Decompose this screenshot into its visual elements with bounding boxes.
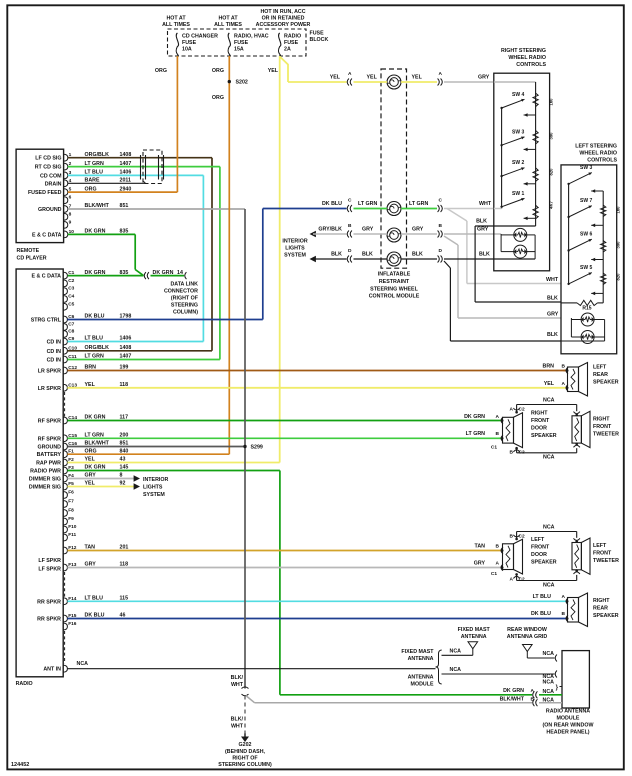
svg-text:B: B	[439, 223, 443, 229]
svg-text:FUSE: FUSE	[284, 40, 299, 46]
svg-text:1408: 1408	[120, 152, 132, 158]
svg-text:43: 43	[120, 457, 126, 463]
svg-text:CONTROL MODULE: CONTROL MODULE	[369, 294, 420, 300]
svg-text:DK GRN: DK GRN	[464, 414, 485, 420]
svg-text:NCA: NCA	[543, 455, 555, 461]
svg-text:DK GRN: DK GRN	[85, 270, 106, 276]
svg-text:840: 840	[120, 448, 129, 454]
svg-text:GROUND: GROUND	[37, 445, 61, 451]
svg-text:CD IN: CD IN	[47, 349, 62, 355]
svg-text:LT BLU: LT BLU	[533, 594, 552, 600]
svg-text:FRONT: FRONT	[531, 545, 550, 551]
svg-text:CONTROLS: CONTROLS	[587, 158, 617, 164]
svg-text:YEL: YEL	[544, 381, 555, 387]
svg-text:BLK: BLK	[479, 252, 490, 258]
svg-text:RIGHT STEERING: RIGHT STEERING	[501, 48, 546, 54]
svg-text:NCA: NCA	[543, 680, 555, 686]
svg-text:STRG CTRL: STRG CTRL	[31, 318, 62, 324]
svg-text:ORG: ORG	[155, 68, 167, 74]
svg-text:FRONT: FRONT	[593, 424, 612, 430]
svg-text:REAR: REAR	[593, 606, 608, 612]
svg-text:C1: C1	[491, 571, 497, 577]
svg-text:YEL: YEL	[268, 68, 279, 74]
svg-text:ORG: ORG	[85, 186, 97, 192]
svg-text:6: 6	[69, 195, 72, 201]
svg-text:10A: 10A	[182, 47, 192, 53]
svg-text:YEL: YEL	[330, 75, 341, 81]
svg-text:390: 390	[616, 241, 621, 249]
svg-text:FIXED MAST: FIXED MAST	[458, 627, 491, 633]
svg-text:FRONT: FRONT	[593, 551, 612, 557]
svg-text:A: A	[562, 594, 566, 600]
svg-text:DK BLU: DK BLU	[322, 201, 342, 207]
svg-text:ANTENNA: ANTENNA	[408, 675, 434, 681]
svg-text:BRN: BRN	[543, 364, 555, 370]
svg-text:ACCESSORY POWER: ACCESSORY POWER	[256, 22, 311, 28]
svg-text:145: 145	[120, 465, 129, 471]
svg-text:GRY/BLK: GRY/BLK	[318, 227, 342, 233]
svg-text:(BEHIND DASH,: (BEHIND DASH,	[225, 749, 266, 755]
svg-text:BARE: BARE	[85, 178, 100, 184]
svg-text:B: B	[348, 223, 352, 229]
svg-text:LR SPKR: LR SPKR	[38, 386, 61, 392]
svg-text:DK BLU: DK BLU	[85, 314, 105, 320]
svg-text:RIGHT: RIGHT	[531, 411, 548, 417]
svg-text:NCA: NCA	[543, 689, 555, 695]
svg-text:FUSE: FUSE	[182, 40, 197, 46]
svg-text:RADIO: RADIO	[16, 681, 33, 687]
svg-text:NCA: NCA	[450, 667, 462, 673]
svg-text:TWEETER: TWEETER	[593, 432, 619, 438]
svg-text:BLK: BLK	[331, 252, 342, 258]
svg-text:LT GRN: LT GRN	[85, 433, 104, 439]
svg-text:LF CD SIG: LF CD SIG	[35, 156, 61, 162]
svg-text:S202: S202	[236, 80, 248, 86]
svg-text:A: A	[510, 577, 514, 583]
svg-text:FUSE: FUSE	[234, 40, 249, 46]
svg-text:REMOTE: REMOTE	[17, 248, 40, 254]
svg-text:C8: C8	[68, 329, 74, 335]
svg-text:GRY: GRY	[362, 227, 374, 233]
svg-text:DOOR: DOOR	[531, 552, 547, 558]
svg-text:124452: 124452	[11, 762, 29, 768]
svg-text:LT BLU: LT BLU	[85, 336, 104, 342]
svg-text:DK BLU: DK BLU	[85, 613, 105, 619]
svg-text:A: A	[531, 688, 535, 694]
svg-text:RT CD SIG: RT CD SIG	[35, 165, 62, 171]
svg-text:DK GRN: DK GRN	[85, 415, 106, 421]
svg-text:F16: F16	[68, 621, 77, 627]
svg-text:DOOR: DOOR	[531, 426, 547, 432]
svg-text:CD CHANGER: CD CHANGER	[182, 34, 218, 40]
svg-text:LEFT STEERING: LEFT STEERING	[575, 144, 617, 150]
svg-text:STEERING WHEEL: STEERING WHEEL	[370, 286, 418, 292]
svg-text:BLK: BLK	[547, 296, 558, 302]
svg-text:FIXED MAST: FIXED MAST	[401, 649, 434, 655]
svg-text:HOT AT: HOT AT	[218, 16, 238, 22]
svg-text:ORG/BLK: ORG/BLK	[85, 152, 110, 158]
svg-text:835: 835	[120, 229, 129, 235]
svg-text:BLK/WHT: BLK/WHT	[500, 697, 525, 703]
svg-text:1407: 1407	[120, 161, 132, 167]
svg-text:A: A	[496, 414, 500, 420]
svg-text:NCA: NCA	[543, 698, 555, 704]
svg-text:STEERING: STEERING	[171, 303, 198, 309]
svg-text:B: B	[562, 611, 566, 617]
svg-text:CONTROLS: CONTROLS	[516, 62, 546, 68]
svg-text:SW 2: SW 2	[512, 160, 524, 166]
svg-text:BLK: BLK	[362, 252, 373, 258]
svg-text:ALL TIMES: ALL TIMES	[162, 22, 190, 28]
svg-text:HOT AT: HOT AT	[166, 16, 186, 22]
svg-text:851: 851	[120, 441, 129, 447]
svg-text:SW 7: SW 7	[580, 198, 592, 204]
svg-text:GROUND: GROUND	[38, 207, 62, 213]
svg-text:46: 46	[120, 613, 126, 619]
svg-text:117: 117	[120, 415, 129, 421]
svg-text:DK GRN: DK GRN	[153, 270, 174, 276]
svg-text:D: D	[439, 248, 443, 254]
svg-text:A: A	[510, 407, 514, 413]
svg-text:C5: C5	[68, 301, 74, 307]
svg-text:WHT: WHT	[231, 724, 244, 730]
svg-text:LT GRN: LT GRN	[409, 201, 428, 207]
svg-text:F6: F6	[68, 490, 74, 496]
svg-text:ANTENNA GRID: ANTENNA GRID	[507, 634, 548, 640]
svg-text:9: 9	[69, 219, 72, 225]
svg-text:RF SPKR: RF SPKR	[38, 419, 61, 425]
svg-text:B: B	[510, 533, 514, 539]
svg-text:B: B	[496, 544, 500, 550]
svg-text:160: 160	[549, 98, 554, 106]
svg-text:GRY: GRY	[478, 75, 490, 81]
svg-text:F10: F10	[68, 524, 77, 530]
svg-text:DATA LINK: DATA LINK	[170, 282, 198, 288]
svg-text:TWEETER: TWEETER	[593, 558, 619, 564]
svg-text:SW 6: SW 6	[580, 232, 592, 238]
svg-text:F8: F8	[68, 508, 74, 514]
svg-text:DK BLU: DK BLU	[531, 611, 551, 617]
svg-text:A: A	[348, 71, 352, 77]
svg-text:YEL: YEL	[85, 457, 96, 463]
svg-text:D: D	[348, 248, 352, 254]
svg-text:SW 1: SW 1	[512, 191, 524, 197]
svg-text:RADIO PWR: RADIO PWR	[30, 469, 61, 475]
svg-text:C2: C2	[68, 278, 74, 284]
svg-text:BLK: BLK	[412, 252, 423, 258]
svg-text:GRY: GRY	[477, 227, 489, 233]
svg-text:B: B	[562, 364, 566, 370]
svg-text:115: 115	[120, 596, 129, 602]
svg-text:SW 3: SW 3	[512, 129, 524, 135]
svg-text:C3: C3	[68, 286, 74, 292]
svg-text:BATTERY: BATTERY	[37, 452, 62, 458]
svg-text:2940: 2940	[120, 186, 132, 192]
svg-text:8: 8	[120, 473, 123, 479]
svg-text:LT GRN: LT GRN	[466, 431, 485, 437]
svg-text:SW 5: SW 5	[580, 265, 592, 271]
svg-text:CD COM: CD COM	[40, 173, 62, 179]
svg-text:LF SPKR: LF SPKR	[38, 567, 61, 573]
svg-text:RESTRAINT: RESTRAINT	[379, 279, 410, 285]
svg-text:S299: S299	[251, 445, 263, 451]
svg-text:RADIO ANTENNA: RADIO ANTENNA	[546, 709, 590, 715]
svg-text:F7: F7	[68, 499, 74, 505]
svg-text:(ON REAR WINDOW: (ON REAR WINDOW	[543, 723, 594, 729]
svg-text:DK GRN: DK GRN	[85, 229, 106, 235]
svg-text:WHT: WHT	[546, 277, 559, 283]
svg-text:WHEEL RADIO: WHEEL RADIO	[579, 151, 617, 157]
svg-text:MODULE: MODULE	[557, 716, 580, 722]
svg-text:SYSTEM: SYSTEM	[284, 253, 306, 259]
svg-text:RR SPKR: RR SPKR	[37, 617, 61, 623]
svg-text:LT BLU: LT BLU	[85, 596, 104, 602]
svg-text:92: 92	[120, 481, 126, 487]
svg-text:TAN: TAN	[475, 544, 486, 550]
svg-text:CD IN: CD IN	[47, 358, 62, 364]
svg-text:LEFT: LEFT	[531, 537, 545, 543]
svg-text:SPEAKER: SPEAKER	[593, 380, 619, 386]
svg-text:RIGHT: RIGHT	[593, 598, 610, 604]
svg-text:LT GRN: LT GRN	[85, 161, 104, 167]
svg-text:FUSED FEED: FUSED FEED	[28, 190, 62, 196]
svg-text:SPEAKER: SPEAKER	[531, 433, 557, 439]
svg-text:BLK/: BLK/	[231, 717, 244, 723]
svg-text:LF SPKR: LF SPKR	[38, 558, 61, 564]
svg-text:C2: C2	[519, 577, 525, 583]
svg-text:B: B	[496, 431, 500, 437]
svg-text:YEL: YEL	[412, 75, 423, 81]
svg-text:FUSE: FUSE	[310, 31, 325, 37]
svg-text:SPEAKER: SPEAKER	[593, 613, 619, 619]
svg-text:SPEAKER: SPEAKER	[531, 560, 557, 566]
svg-text:BLOCK: BLOCK	[310, 37, 329, 43]
svg-text:INTERIOR: INTERIOR	[143, 477, 168, 483]
svg-text:ORG/BLK: ORG/BLK	[85, 345, 110, 351]
svg-text:2011: 2011	[120, 178, 132, 184]
svg-text:NCA: NCA	[543, 398, 555, 404]
svg-text:RAP PWR: RAP PWR	[36, 461, 61, 467]
svg-text:C2: C2	[519, 407, 525, 413]
svg-text:160: 160	[616, 206, 621, 214]
svg-text:NCA: NCA	[77, 661, 89, 667]
svg-text:1406: 1406	[120, 170, 132, 176]
svg-text:ORG: ORG	[85, 448, 97, 454]
svg-text:REAR WINDOW: REAR WINDOW	[507, 627, 547, 633]
svg-text:ORG: ORG	[212, 68, 224, 74]
svg-text:4K7: 4K7	[549, 200, 554, 208]
svg-text:C7: C7	[68, 322, 74, 328]
svg-text:BLK/: BLK/	[231, 675, 244, 681]
svg-text:GRY: GRY	[412, 227, 424, 233]
svg-text:2A: 2A	[284, 47, 291, 53]
svg-text:NCA: NCA	[450, 649, 462, 655]
svg-text:LT GRN: LT GRN	[85, 354, 104, 360]
svg-text:BLK: BLK	[476, 219, 487, 225]
svg-text:390: 390	[549, 132, 554, 140]
svg-text:GRY: GRY	[547, 312, 559, 318]
svg-text:COLUMN): COLUMN)	[173, 310, 198, 316]
svg-text:835: 835	[120, 270, 129, 276]
svg-text:1407: 1407	[120, 354, 132, 360]
svg-text:A: A	[496, 561, 500, 567]
svg-text:BLK: BLK	[547, 332, 558, 338]
svg-text:1408: 1408	[120, 345, 132, 351]
svg-text:CD PLAYER: CD PLAYER	[17, 256, 47, 262]
svg-text:INFLATABLE: INFLATABLE	[378, 272, 411, 278]
svg-text:STEERING COLUMN): STEERING COLUMN)	[218, 762, 272, 768]
svg-text:NCA: NCA	[543, 583, 555, 589]
svg-text:YEL: YEL	[85, 382, 96, 388]
svg-text:A: A	[439, 71, 443, 77]
svg-text:RF SPKR: RF SPKR	[38, 436, 61, 442]
svg-text:LIGHTS: LIGHTS	[143, 485, 163, 491]
svg-text:E & C DATA: E & C DATA	[31, 274, 61, 280]
svg-text:HOT IN RUN, ACC: HOT IN RUN, ACC	[260, 9, 305, 15]
svg-text:RIGHT: RIGHT	[593, 417, 610, 423]
svg-text:RR SPKR: RR SPKR	[37, 599, 61, 605]
svg-text:YEL: YEL	[85, 481, 96, 487]
svg-text:(RIGHT OF: (RIGHT OF	[171, 296, 199, 302]
svg-text:DK GRN: DK GRN	[85, 465, 106, 471]
svg-text:TAN: TAN	[85, 545, 96, 551]
svg-text:FRONT: FRONT	[531, 418, 550, 424]
svg-text:DRAIN: DRAIN	[45, 181, 62, 187]
svg-text:ANT IN: ANT IN	[43, 667, 61, 673]
svg-text:C4: C4	[68, 294, 74, 300]
svg-text:B: B	[531, 697, 535, 703]
svg-text:F11: F11	[68, 532, 76, 538]
svg-text:LT BLU: LT BLU	[85, 170, 104, 176]
svg-text:RADIO: RADIO	[284, 34, 301, 40]
svg-text:WHT: WHT	[479, 201, 492, 207]
svg-text:BLK/WHT: BLK/WHT	[85, 203, 110, 209]
svg-text:C1: C1	[491, 445, 497, 451]
svg-text:DIMMER SIG: DIMMER SIG	[29, 485, 61, 491]
svg-text:200: 200	[120, 433, 129, 439]
svg-text:INTERIOR: INTERIOR	[282, 239, 307, 245]
svg-text:LEFT: LEFT	[593, 365, 607, 371]
svg-text:SYSTEM: SYSTEM	[143, 492, 165, 498]
svg-text:1798: 1798	[120, 314, 132, 320]
svg-text:E & C DATA: E & C DATA	[32, 232, 62, 238]
svg-text:DK GRN: DK GRN	[503, 688, 524, 694]
svg-text:BRN: BRN	[85, 365, 97, 371]
svg-text:HEADER PANEL): HEADER PANEL)	[546, 730, 589, 736]
svg-text:REAR: REAR	[593, 372, 608, 378]
svg-text:YEL: YEL	[367, 75, 378, 81]
svg-text:WHEEL RADIO: WHEEL RADIO	[508, 55, 546, 61]
svg-text:CONNECTOR: CONNECTOR	[164, 289, 198, 295]
svg-text:GRY: GRY	[85, 473, 97, 479]
svg-text:851: 851	[120, 203, 129, 209]
svg-text:B: B	[510, 450, 514, 456]
svg-text:C: C	[348, 198, 352, 204]
svg-text:NCA: NCA	[543, 525, 555, 531]
svg-text:SW 4: SW 4	[512, 92, 524, 98]
svg-text:DIMMER SIG: DIMMER SIG	[29, 477, 61, 483]
svg-text:SW 3: SW 3	[580, 165, 592, 171]
svg-text:A: A	[562, 381, 566, 387]
svg-text:ANTENNA: ANTENNA	[408, 656, 434, 662]
svg-text:118: 118	[120, 382, 129, 388]
svg-text:C2: C2	[519, 450, 525, 456]
svg-text:GRY: GRY	[474, 561, 486, 567]
svg-text:R15: R15	[582, 306, 591, 312]
svg-text:820: 820	[549, 168, 554, 176]
svg-text:ALL TIMES: ALL TIMES	[214, 22, 242, 28]
svg-text:G202: G202	[239, 742, 252, 748]
svg-text:LIGHTS: LIGHTS	[285, 246, 305, 252]
svg-text:15A: 15A	[234, 47, 244, 53]
svg-text:RADIO, HVAC: RADIO, HVAC	[234, 34, 269, 40]
svg-text:ORG: ORG	[212, 95, 224, 101]
svg-text:GRY: GRY	[85, 562, 97, 568]
svg-text:F9: F9	[68, 516, 74, 522]
svg-text:118: 118	[120, 562, 129, 568]
svg-text:CD IN: CD IN	[47, 340, 62, 346]
svg-text:ANTENNA: ANTENNA	[461, 634, 487, 640]
svg-text:LR SPKR: LR SPKR	[38, 369, 61, 375]
svg-text:BLK/WHT: BLK/WHT	[85, 441, 110, 447]
svg-text:LT GRN: LT GRN	[358, 201, 377, 207]
svg-text:201: 201	[120, 545, 129, 551]
svg-text:NCA: NCA	[543, 651, 555, 657]
svg-text:199: 199	[120, 365, 129, 371]
svg-text:14: 14	[177, 270, 183, 276]
svg-text:C: C	[439, 198, 443, 204]
svg-text:C2: C2	[519, 533, 525, 539]
svg-text:WHT: WHT	[231, 682, 244, 688]
svg-text:RIGHT OF: RIGHT OF	[232, 755, 258, 761]
svg-text:LEFT: LEFT	[593, 543, 607, 549]
svg-text:1406: 1406	[120, 336, 132, 342]
svg-text:820: 820	[616, 273, 621, 281]
svg-text:MODULE: MODULE	[411, 682, 434, 688]
svg-text:8: 8	[69, 211, 72, 217]
svg-text:OR IN RETAINED: OR IN RETAINED	[262, 16, 305, 22]
